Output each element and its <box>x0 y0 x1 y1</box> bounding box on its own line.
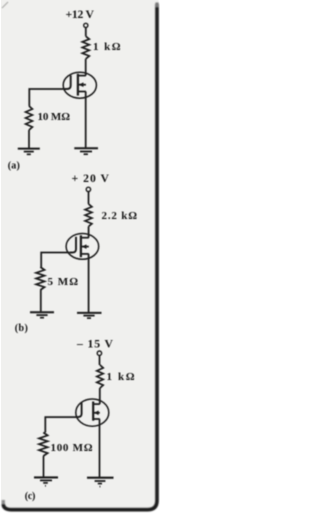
wire R1 to drain of Q1 <box>85 59 87 76</box>
wire terminal to R1 <box>85 28 87 37</box>
wire terminal to R3 <box>88 192 90 204</box>
ground (a) source side <box>74 148 98 154</box>
svg-text:1 kΩ: 1 kΩ <box>93 41 121 53</box>
svg-text:(c): (c) <box>25 491 36 502</box>
wire R4 to ground <box>40 290 42 312</box>
resistor R6 100 MOhm <box>39 433 48 457</box>
wire terminal to R5 <box>99 356 101 366</box>
svg-text:+12 V: +12 V <box>66 8 95 21</box>
wire source of Q3 to ground <box>99 419 101 477</box>
wire R2 to ground <box>28 130 30 148</box>
svg-text:10 MΩ: 10 MΩ <box>38 111 71 123</box>
resistor R5 1 kOhm <box>97 365 103 388</box>
wire R5 to drain of Q3 <box>99 388 101 404</box>
transistor Q2 <box>66 234 99 260</box>
left faint border line <box>0 2 2 499</box>
transistor Q3 <box>76 399 109 426</box>
resistor R2 10 MOhm <box>26 106 33 130</box>
ground (b) gate side <box>30 312 54 317</box>
top-left corner artifact <box>2 2 8 8</box>
card background <box>0 0 160 515</box>
wire gate of Q3 to R6 <box>45 417 76 432</box>
resistor R4 5 MOhm <box>36 267 44 290</box>
svg-text:(a): (a) <box>8 160 20 171</box>
supply terminal -15V <box>97 351 101 355</box>
ground (b) source side <box>77 313 102 318</box>
wire source of Q1 to ground <box>85 92 87 149</box>
wire R6 to ground <box>43 456 45 477</box>
ground (c) gate side <box>34 477 58 485</box>
svg-text:+ 20 V: + 20 V <box>72 172 110 185</box>
svg-text:(b): (b) <box>15 323 28 334</box>
transistor Q1 <box>63 72 96 98</box>
wire gate of Q1 to R2 <box>29 89 64 106</box>
svg-text:– 15 V: – 15 V <box>76 337 114 350</box>
resistor R3 2.2 kOhm <box>85 204 92 227</box>
ground (c) source side <box>87 478 114 487</box>
svg-text:1 kΩ: 1 kΩ <box>107 371 135 383</box>
top faint border line <box>0 0 158 2</box>
right and bottom shadow border <box>3 3 157 510</box>
wire gate of Q2 to R4 <box>41 253 70 268</box>
svg-text:2.2 kΩ: 2.2 kΩ <box>102 210 138 222</box>
svg-text:100 MΩ: 100 MΩ <box>51 442 93 454</box>
resistor R1 1 kOhm <box>82 36 89 59</box>
supply terminal +20V <box>86 187 90 191</box>
supply terminal +12V <box>84 23 88 27</box>
ground (a) gate side <box>18 149 40 155</box>
wire source of Q2 to ground <box>88 254 90 312</box>
wire R3 to drain of Q2 <box>88 227 90 238</box>
svg-text:5 MΩ: 5 MΩ <box>48 276 79 288</box>
